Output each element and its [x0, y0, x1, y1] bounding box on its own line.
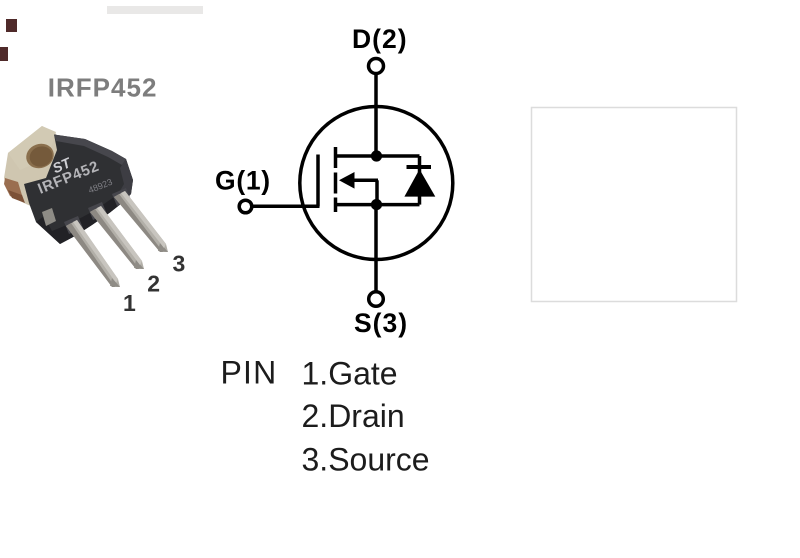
- svg-text:IRFP452: IRFP452: [48, 73, 158, 103]
- svg-text:1: 1: [123, 290, 136, 316]
- svg-text:D(2): D(2): [352, 24, 408, 54]
- svg-text:1.Gate: 1.Gate: [302, 356, 398, 392]
- svg-text:3: 3: [173, 251, 186, 277]
- svg-text:G(1): G(1): [215, 166, 271, 196]
- svg-text:S(3): S(3): [354, 308, 408, 338]
- svg-text:2.Drain: 2.Drain: [302, 398, 405, 434]
- svg-text:3.Source: 3.Source: [302, 442, 430, 478]
- svg-text:2: 2: [147, 271, 160, 297]
- svg-text:PIN: PIN: [221, 355, 278, 391]
